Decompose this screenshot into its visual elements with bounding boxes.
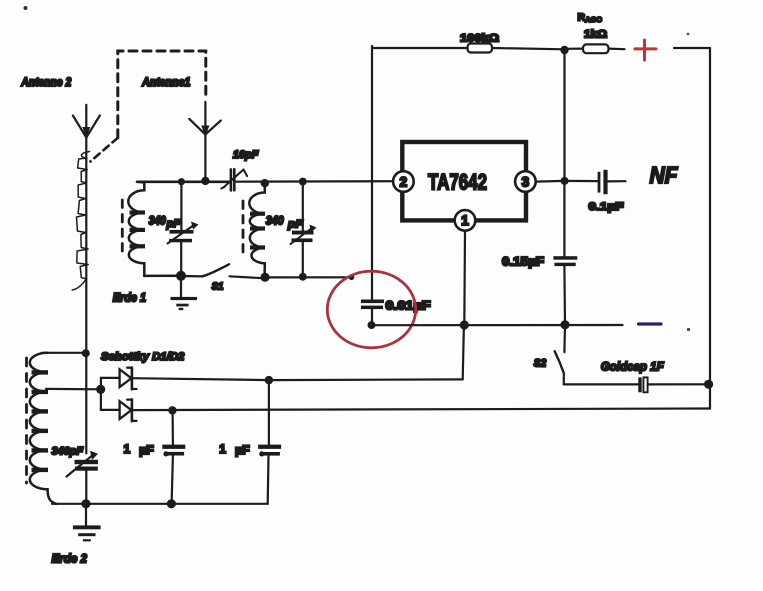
wire: tank2 bottom rail stub to red-circled node <box>265 276 351 278</box>
wire: minus rail (y=325) <box>372 324 623 326</box>
ground Erde 1 <box>171 276 198 310</box>
wire: riser to D1 <box>101 378 120 390</box>
junction node: tank2 cap bottom <box>299 273 307 281</box>
wire: tank top rail (trimmer to IC pin 2) <box>235 180 393 183</box>
wire: pin3 to AGC node <box>536 180 565 183</box>
svg-text:2: 2 <box>400 174 408 189</box>
speck near top right <box>687 33 690 36</box>
wire: top supply rail left of 100k <box>372 47 468 49</box>
trimmer capacitor 10pF <box>221 169 247 190</box>
svg-text:0.01µF: 0.01µF <box>386 301 431 313</box>
junction node: tank2 coil bottom <box>260 273 269 282</box>
svg-text:1: 1 <box>461 213 469 228</box>
wire: 1uF #2 top lead (from D1 rail crossing D2 rail) <box>268 380 270 444</box>
wire: riser up to minus rail <box>463 325 464 379</box>
svg-text:1kΩ: 1kΩ <box>584 29 607 41</box>
wire: antenna2 line down to 340pF cap <box>85 353 87 454</box>
junction node: D1 rail / 1uF #2 top <box>265 376 273 384</box>
svg-text:340: 340 <box>266 213 284 227</box>
svg-text:Goldcap 1F: Goldcap 1F <box>601 360 664 374</box>
wire: D1 rail to riser <box>269 378 463 381</box>
junction node: coil top / antenna 2 line <box>82 349 90 357</box>
svg-text:1: 1 <box>219 442 226 456</box>
junction node: 0.15uF bottom / S2 top <box>560 320 569 329</box>
wire: pin1 down to minus rail <box>463 231 466 325</box>
svg-text:µF: µF <box>139 443 154 457</box>
red highlight circle around 0.01uF <box>327 271 415 348</box>
pin 1 of U1 <box>455 210 476 231</box>
wire: Ragc to plus terminal <box>609 47 625 50</box>
ferrite/core dashed line (tank2) <box>242 201 245 256</box>
wire: coil tap to diode junction <box>46 388 101 391</box>
svg-text:Antenne1: Antenne1 <box>141 77 190 89</box>
junction node: tank2 cap top <box>299 178 307 186</box>
switch S1 (open) <box>181 264 265 278</box>
svg-text:pF: pF <box>165 218 180 230</box>
wire: AGC vertical to 0.15uF <box>563 181 565 256</box>
capacitor 0.15uF <box>553 256 577 325</box>
antenna ANT2 (Antenne 2) symbol <box>73 105 100 160</box>
diode D2 (Schottky) <box>120 399 137 421</box>
wire: 1uF #1 top lead <box>172 410 174 444</box>
variable capacitor 340pF (antenna circuit) <box>67 451 99 504</box>
inductor L1 (tank1 coil) <box>128 182 145 276</box>
junction node: diode split <box>96 385 105 394</box>
svg-text:1: 1 <box>124 442 131 456</box>
junction node: 1uF #1 bottom <box>167 499 176 508</box>
junction node: AGC rail top <box>560 46 568 54</box>
wire: plus side to right rail <box>674 47 710 49</box>
svg-text:RAGC: RAGC <box>578 12 603 25</box>
wire: junction to Ragc <box>565 47 584 49</box>
variable capacitor C1 340pF (tank1) <box>168 182 199 276</box>
svg-text:µF: µF <box>235 443 250 457</box>
capacitor Goldcap 1F <box>638 377 710 392</box>
junction node: tank1 cap top <box>178 178 185 185</box>
ferrite/core dashed line (antenna coil) <box>25 358 28 483</box>
wire: AGC vertical x=564 (top junction down to pin3 node) <box>563 50 565 181</box>
resistor Ragc 1k body <box>583 44 609 53</box>
wire: Antenne 2 lead-in with hand-drawn scribble <box>72 152 89 353</box>
minus terminal (blue -) <box>639 322 662 325</box>
junction node: Erde 2 <box>81 499 90 508</box>
wire: tank top rail (left part, to trimmer) <box>137 181 230 184</box>
svg-text:TA7642: TA7642 <box>428 170 487 195</box>
speck right of minus <box>687 328 690 331</box>
svg-text:Antenne 2: Antenne 2 <box>20 77 71 89</box>
ground Erde 2 <box>73 504 101 542</box>
junction node: D2 rail / 1uF #1 top <box>168 406 176 414</box>
svg-text:0.1µF: 0.1µF <box>589 201 624 213</box>
svg-text:Erde 1: Erde 1 <box>113 291 146 305</box>
capacitor 0.1uF (NF coupling) <box>598 170 626 194</box>
variable capacitor C2 340pF (tank2) <box>291 182 317 277</box>
dashed enclosure around Antenne 1 <box>90 51 205 162</box>
svg-text:Erde 2: Erde 2 <box>52 552 88 566</box>
wire: D2 cathode rail to bottom-right corner <box>132 409 710 411</box>
capacitor 0.01uF plates <box>361 300 384 326</box>
diode D1 (Schottky) <box>120 368 137 390</box>
resistor 100k body <box>468 44 493 53</box>
switch S2 (open) <box>555 325 565 384</box>
svg-text:S2: S2 <box>534 358 547 370</box>
wire: coil top link to antenna line <box>42 352 86 354</box>
junction node: 0.01uF bottom <box>368 321 376 329</box>
node: stub end dot <box>349 275 355 281</box>
wire: S2 to Goldcap <box>564 383 639 385</box>
junction node: pin1 line to minus rail <box>460 320 469 329</box>
svg-text:pF: pF <box>287 219 303 231</box>
svg-text:NF: NF <box>650 162 679 188</box>
junction node: tank2 coil top <box>261 179 269 187</box>
junction node: pin3 / AGC / 0.1uF <box>561 177 569 185</box>
wire: bottom ground rail y=504 <box>52 503 268 505</box>
svg-text:S1: S1 <box>212 281 224 293</box>
wire: right vertical rail <box>709 48 711 409</box>
pin 3 of U1 <box>515 171 536 192</box>
wire: tank1 bottom rail <box>144 275 181 278</box>
svg-text:10pF: 10pF <box>233 149 259 161</box>
wire: D1 cathode rail <box>132 378 269 380</box>
junction node: tank1 bottom / Erde 1 <box>176 271 186 281</box>
svg-text:0.15µF: 0.15µF <box>502 257 544 269</box>
speck top-left <box>24 6 28 10</box>
antenna ANT1 (Antenne 1) symbol <box>189 102 221 181</box>
capacitor 1uF #1 <box>162 445 185 504</box>
svg-text:Schottky D1/D2: Schottky D1/D2 <box>101 351 185 363</box>
ferrite/core dashed line (tank1) <box>121 200 124 254</box>
junction node: Goldcap to right rail <box>704 380 713 389</box>
svg-text:3: 3 <box>522 174 530 189</box>
wire: rail 100k to junction <box>492 48 565 49</box>
IC U1 TA7642 body <box>402 142 526 220</box>
wire: node to 0.1uF <box>565 180 598 182</box>
inductor: left antenna coil (Spule) <box>30 353 56 504</box>
junction node: antenna1 to rail <box>201 177 209 185</box>
plus terminal (red +) <box>635 40 656 60</box>
capacitor 1uF #2 <box>258 445 281 504</box>
pin 2 of U1 <box>393 171 414 192</box>
svg-text:340pF: 340pF <box>52 445 84 457</box>
wire: main vertical from top rail to 0.01uF (x=372) <box>371 46 373 300</box>
svg-text:340: 340 <box>149 213 166 227</box>
wire: dropper to D2 <box>101 389 120 410</box>
inductor L2 (tank2 coil) <box>249 183 265 277</box>
svg-text:100kΩ: 100kΩ <box>460 33 499 45</box>
